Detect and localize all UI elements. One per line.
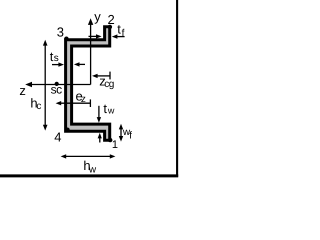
svg-text:z: z — [81, 94, 86, 105]
svg-text:z: z — [19, 83, 26, 98]
svg-text:w: w — [88, 164, 97, 175]
svg-text:f: f — [122, 28, 125, 39]
svg-text:s: s — [54, 53, 59, 64]
svg-text:c: c — [36, 101, 41, 112]
svg-text:w: w — [107, 106, 115, 116]
svg-text:2: 2 — [108, 12, 115, 27]
svg-text:cg: cg — [104, 79, 114, 90]
svg-text:t: t — [103, 101, 107, 116]
svg-text:3: 3 — [57, 25, 64, 40]
svg-text:f: f — [129, 130, 132, 141]
svg-text:4: 4 — [54, 129, 61, 144]
svg-text:1: 1 — [112, 139, 118, 151]
svg-text:y: y — [94, 9, 101, 24]
svg-text:sc: sc — [51, 83, 63, 97]
